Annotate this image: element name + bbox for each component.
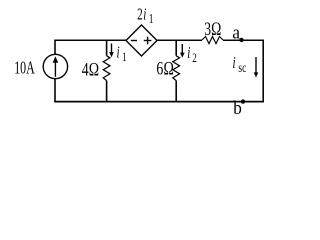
wire top left segment (55, 39, 126, 41)
wire bottom (54, 101, 264, 103)
current arrow i2 (180, 44, 185, 58)
svg-text:i: i (187, 44, 190, 63)
dependent source U1 (126, 25, 157, 56)
wire left vertical stubs (54, 40, 56, 102)
current arrow i1 (109, 44, 114, 58)
svg-text:2: 2 (192, 52, 197, 66)
wire 4ohm branch stubs (106, 40, 108, 102)
node a (239, 38, 243, 42)
svg-text:a: a (232, 22, 240, 43)
svg-text:2: 2 (137, 5, 143, 24)
wire top middle segment (157, 39, 202, 41)
svg-text:1: 1 (122, 51, 127, 65)
label i1 (117, 43, 127, 64)
current arrow isc (254, 57, 259, 78)
svg-text:6Ω: 6Ω (156, 57, 174, 79)
svg-text:sc: sc (238, 60, 246, 75)
current source I1 (43, 54, 67, 78)
label 2i1 (137, 5, 153, 26)
svg-text:10A: 10A (14, 59, 35, 78)
wire 6ohm branch stubs (175, 40, 177, 102)
svg-text:3Ω: 3Ω (204, 18, 221, 40)
wire top right segment (223, 39, 264, 41)
svg-text:i: i (143, 5, 146, 24)
svg-text:4Ω: 4Ω (82, 58, 100, 80)
label i2 (187, 44, 197, 66)
svg-text:b: b (233, 97, 242, 115)
svg-text:i: i (117, 43, 120, 62)
wire right vertical (262, 40, 264, 103)
svg-text:1: 1 (149, 11, 154, 26)
label isc (233, 54, 247, 76)
resistor R2 6ohm (173, 56, 180, 81)
node b (241, 99, 245, 103)
svg-text:i: i (233, 54, 236, 73)
resistor R1 4ohm (103, 56, 110, 81)
resistor R3 3ohm (202, 37, 223, 44)
